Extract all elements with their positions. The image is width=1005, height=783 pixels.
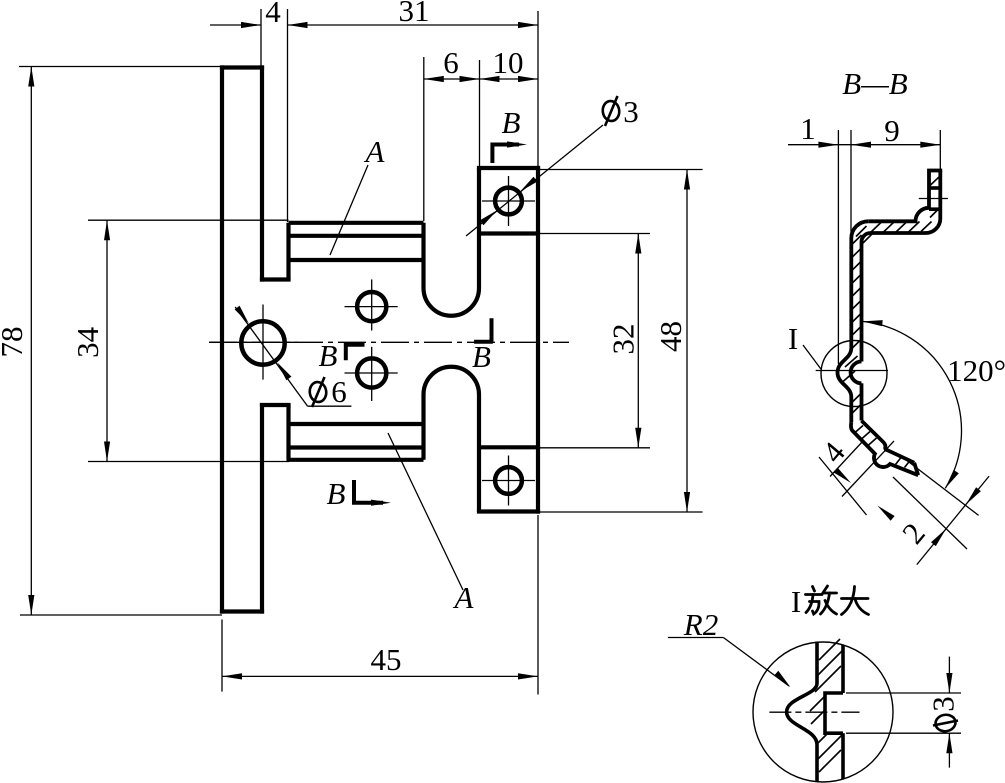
- 32 top ext line: [540, 233, 650, 235]
- left flange right edge upper segment: [260, 65, 264, 281]
- arrow 120 bottom (tangential pointing down-left): [945, 470, 959, 488]
- small hole lower: [357, 358, 386, 387]
- phi3 dim line lower: [948, 733, 950, 767]
- 32 dim line: [637, 234, 639, 448]
- ext line 1-right / top run right surface: [850, 130, 852, 233]
- phi6 leader arrows: [235, 306, 249, 324]
- upper rail bottom line: [287, 258, 424, 262]
- lower inner strip right edge: [286, 405, 290, 460]
- 34 bottom ext line: [88, 461, 289, 463]
- detail sheet right surface lower: [841, 733, 845, 779]
- lower inner strip top edge: [260, 403, 291, 407]
- phi3 top ext: [846, 692, 961, 694]
- lower tab bottom edge: [477, 509, 540, 513]
- lower slot right edge / lower tab left edge: [477, 395, 481, 512]
- ext line bottom edge left (78): [20, 614, 222, 616]
- svg-text:I: I: [788, 321, 798, 356]
- svg-text:6: 6: [443, 45, 459, 80]
- tab hole upper edge: [929, 186, 940, 190]
- phi3 leader line: [466, 125, 603, 236]
- hatch vertical sheet: [843, 235, 862, 414]
- detail sheet left surface with R2 bump: [787, 643, 817, 782]
- 4/31 shared ext line: [287, 9, 289, 222]
- sheet top flange cap: [927, 169, 942, 173]
- B mark bottom: corner with vertical tick: [354, 480, 383, 503]
- arrow 78 bottom: [28, 595, 34, 615]
- arrow 4 (outside pointing right): [241, 22, 261, 28]
- 45 dim line: [222, 675, 538, 677]
- tab hole centerline: [919, 198, 948, 200]
- arrow 10 right: [518, 76, 538, 82]
- upper tab hole: [495, 188, 522, 215]
- svg-text:B: B: [319, 338, 338, 373]
- svg-text:10: 10: [493, 45, 524, 80]
- 34 dim line: [106, 220, 108, 461]
- arrow 6 right: [460, 76, 480, 82]
- B mark top: corner with vertical tick: [492, 145, 519, 164]
- arrow 48 bottom: [684, 492, 690, 512]
- upper tab top edge: [477, 166, 540, 170]
- lower small hole vertical crosshair: [371, 347, 373, 401]
- sheet right surface from bend to dimple: [862, 233, 871, 362]
- phi6 leader diagonal: [235, 307, 307, 406]
- svg-text:3: 3: [623, 94, 639, 129]
- arrow 32 bottom: [635, 428, 641, 448]
- svg-text:6: 6: [331, 374, 347, 409]
- detail hatching: [810, 639, 843, 772]
- R2 underline: [668, 637, 724, 639]
- upper rail middle line: [289, 234, 424, 238]
- phi6 horizontal crosshair: [210, 341, 298, 343]
- B bottom arrow: [371, 500, 391, 506]
- leg upper surface extension (ext for 120 and 2): [903, 458, 979, 516]
- phi3 leader arrows: [520, 177, 538, 192]
- svg-text:120°: 120°: [947, 353, 1005, 388]
- 4 dim line: [819, 457, 867, 515]
- upper slot left edge: [421, 223, 425, 288]
- Z-bend outer: run top surface into tab left surface: [868, 172, 929, 222]
- 120 arc: [863, 321, 962, 488]
- 48 bottom ext line: [540, 511, 703, 513]
- svg-text:B: B: [472, 339, 491, 374]
- ext line 1-left / top run left surface: [837, 130, 839, 364]
- detail centerline: [769, 711, 859, 713]
- 1/9 dim line: [788, 144, 940, 146]
- svg-text:1: 1: [800, 111, 816, 146]
- left flange top edge: [220, 65, 264, 69]
- phi6 vertical crosshair: [262, 305, 264, 380]
- I leader: [803, 345, 821, 369]
- sheet left surface with dimple: [838, 221, 869, 422]
- arrow 31 right: [518, 22, 538, 28]
- left flange bottom edge: [220, 609, 264, 613]
- R2 leader: [723, 638, 789, 687]
- svg-text:48: 48: [653, 321, 688, 352]
- hatch horizontal run: [856, 222, 932, 245]
- lower tab bend line: [479, 445, 540, 449]
- tab hole lower edge: [929, 207, 940, 211]
- svg-text:45: 45: [371, 642, 402, 677]
- phi3 arrow down: [946, 673, 952, 693]
- arrow 4 upper (pointing down-right): [834, 468, 851, 483]
- ext line 9-right: [939, 130, 941, 170]
- svg-text:B—B: B—B: [842, 66, 908, 101]
- leg tip cap: [914, 463, 918, 476]
- B mark mid-right: [474, 318, 493, 341]
- svg-text:A: A: [453, 580, 475, 615]
- svg-text:4: 4: [265, 0, 281, 29]
- 2 dim line: [917, 476, 989, 564]
- arrow 45 left: [222, 673, 242, 679]
- phi3 arrow up: [946, 733, 952, 753]
- arrow 2 upper-right (pointing down-left): [966, 487, 981, 504]
- arrow 34 top: [104, 220, 110, 240]
- lower slot semicircle: [424, 367, 480, 395]
- svg-text:A: A: [364, 134, 386, 169]
- arrow 4 lower (pointing up-left): [877, 506, 894, 521]
- phi symbol for phi3 label: [601, 96, 620, 126]
- svg-text:34: 34: [70, 326, 105, 358]
- arrow 120 top (tangential pointing left): [863, 320, 883, 326]
- 4 ext line left: [260, 9, 262, 66]
- lower tab hole horizontal crosshair: [482, 480, 535, 482]
- hatch tab: [929, 176, 940, 218]
- 120 bend and leg outer surface with joggle bump: [851, 423, 918, 476]
- arrow 32 top: [635, 234, 641, 254]
- phi3 bottom ext: [846, 732, 961, 734]
- 78 dim line: [30, 67, 32, 616]
- 4 ext line 2: [842, 441, 894, 497]
- upper tab hole vertical crosshair: [508, 176, 510, 226]
- arrow 78 top: [28, 67, 34, 87]
- leg inner surface with joggle: [862, 421, 915, 463]
- 6/10 shared ext line: [479, 60, 481, 166]
- hand-drawn hanzi FANG (of fangda): [806, 586, 837, 614]
- Z-bend inner: run bottom surface into tab right surface: [871, 171, 941, 234]
- arrow 34 bottom: [104, 442, 110, 462]
- lower rail middle line: [289, 445, 424, 449]
- lower tab hole: [495, 467, 522, 494]
- small hole upper: [357, 292, 386, 321]
- svg-text:B: B: [502, 105, 521, 140]
- ext 2 second line: [893, 477, 967, 549]
- arrow 48 top: [684, 170, 690, 190]
- phi symbol for phi6 label: [308, 377, 327, 407]
- upper rail top line (plate top edge): [289, 221, 424, 225]
- I detail circle: [821, 341, 887, 407]
- 32 bottom ext line: [540, 447, 650, 449]
- svg-text:B: B: [327, 476, 346, 511]
- upper tab hole horizontal crosshair: [482, 200, 535, 202]
- A bottom leader: [388, 433, 463, 590]
- lower slot left edge: [421, 395, 425, 460]
- 48 dim line: [686, 170, 688, 513]
- 31 dim line: [288, 24, 539, 26]
- detail phi symbol (rotated): [933, 713, 958, 732]
- left flange right edge lower segment: [260, 403, 264, 614]
- 4 ext line 1: [830, 441, 863, 477]
- svg-text:78: 78: [0, 327, 29, 358]
- 45 left ext line: [221, 620, 223, 692]
- hatch leg: [855, 426, 910, 468]
- arrow 9 right: [920, 142, 940, 148]
- detail dims: [668, 638, 961, 768]
- sheet right surface below dimple: [860, 383, 864, 420]
- upper slot semicircle: [424, 288, 480, 316]
- 34 top ext line: [88, 219, 289, 221]
- arrow 9 left: [851, 142, 871, 148]
- phi6 hole: [241, 321, 284, 364]
- arrow 2 lower-left (pointing up-right): [931, 529, 946, 546]
- 31/10/45 right ext line upper: [537, 11, 539, 166]
- 4 dim tail line: [210, 24, 261, 26]
- arrow 31 left: [288, 22, 308, 28]
- svg-text:9: 9: [884, 113, 900, 148]
- svg-text:3: 3: [926, 696, 961, 712]
- lower rail top line: [289, 422, 424, 426]
- 6/10 dim line: [424, 78, 538, 80]
- upper inner strip bottom edge: [260, 277, 291, 281]
- svg-text:31: 31: [399, 0, 430, 28]
- B top arrow: [507, 141, 527, 147]
- upper inner strip right edge: [286, 223, 290, 280]
- I circle centerline: [816, 370, 888, 372]
- lower rail bottom line: [287, 458, 424, 462]
- detail notch: [825, 693, 843, 733]
- B mark mid-left corner: [346, 345, 365, 361]
- left flange left edge: [220, 65, 224, 613]
- svg-text:R2: R2: [683, 607, 718, 642]
- lower small hole horizontal crosshair: [345, 372, 398, 374]
- lower tab hole vertical crosshair: [508, 456, 510, 506]
- svg-text:32: 32: [606, 324, 641, 355]
- svg-text:I: I: [791, 584, 801, 619]
- ext line top edge left (78): [19, 66, 222, 68]
- upper slot right edge / upper tab left edge: [477, 168, 481, 288]
- horizontal centerline dash-dot: [209, 341, 569, 343]
- R2 arrow: [774, 671, 790, 688]
- phi3 dim line upper: [948, 657, 950, 693]
- 6 ext line: [423, 57, 425, 221]
- phi6 leader shoulder: [308, 405, 352, 407]
- hand-drawn hanzi DA (of fangda): [842, 587, 869, 615]
- 45 right ext line: [537, 515, 539, 695]
- arrow 1 dim (pointing right): [818, 142, 838, 148]
- plate right edge: [536, 166, 540, 514]
- arrow 6 left: [424, 76, 444, 82]
- upper small hole vertical crosshair: [371, 279, 373, 330]
- arrow 45 right: [518, 673, 538, 679]
- upper small hole horizontal crosshair: [345, 306, 398, 308]
- upper tab bend line: [479, 231, 540, 235]
- A top leader: [330, 165, 368, 255]
- detail sheet right surface upper: [841, 645, 845, 693]
- 48 top ext line: [540, 169, 703, 171]
- detail circle: [753, 642, 893, 782]
- arrow 10 left: [480, 76, 500, 82]
- dimple notch arc on right surface: [851, 362, 862, 384]
